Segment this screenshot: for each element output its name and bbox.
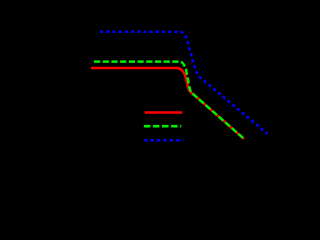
- legend sample blue dotted: [144, 139, 183, 142]
- curve blue dotted: [100, 32, 268, 134]
- legend sample red solid: [145, 111, 183, 114]
- legend sample green dashed: [144, 125, 182, 128]
- curve green dashed: [94, 62, 243, 139]
- curve red solid: [91, 68, 244, 139]
